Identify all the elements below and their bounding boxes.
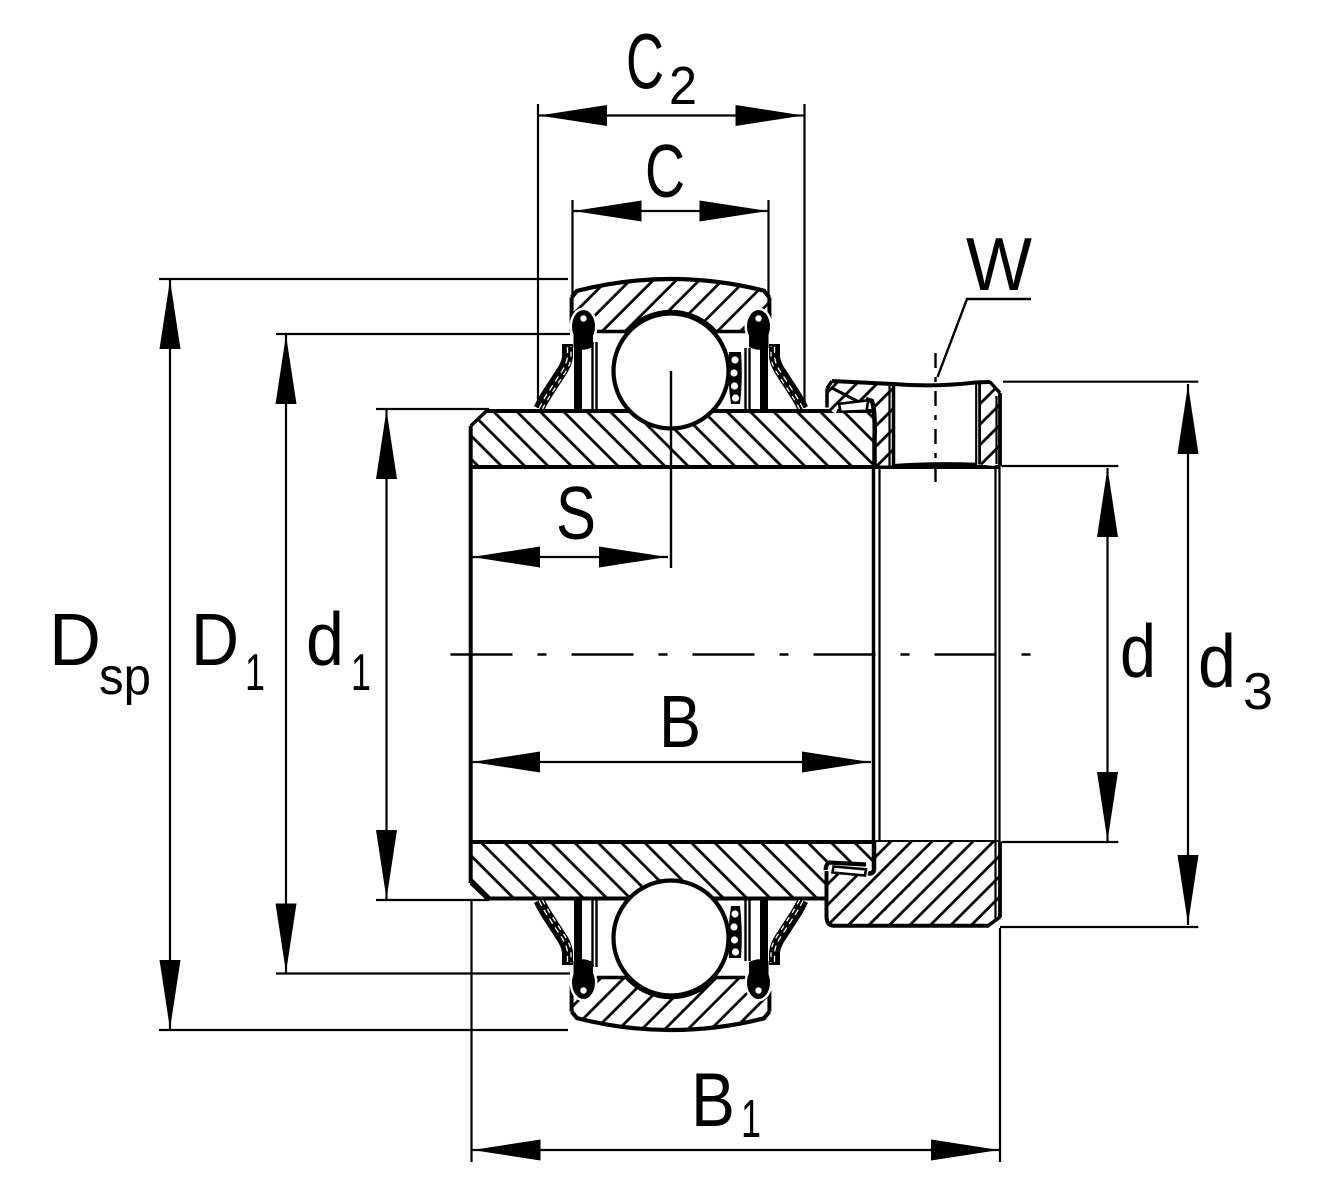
dimension d1: [306, 409, 489, 900]
dimension B1: [472, 899, 1001, 1162]
locking collar bottom section: [826, 842, 1001, 926]
raceway shoulder lines top-right: [744, 348, 746, 409]
svg-text:B: B: [659, 680, 701, 763]
svg-text:S: S: [556, 471, 596, 555]
raceway shoulder lines bottom-right: [744, 900, 746, 961]
svg-text:C: C: [626, 17, 664, 105]
inner ring left face: [469, 426, 473, 883]
svg-text:D: D: [49, 598, 101, 681]
dimension C: [573, 129, 769, 297]
outer ring top section: [572, 279, 770, 332]
dimension Dsp: [49, 279, 568, 1030]
locking collar top left section: [827, 381, 894, 466]
W centerline: [934, 353, 936, 491]
svg-text:B: B: [691, 1058, 735, 1143]
dimension D1: [191, 334, 570, 974]
seal bottom-right: [745, 900, 804, 1002]
locking collar top middle (elevation): [890, 382, 978, 465]
locking collar top right section: [976, 382, 1000, 467]
dimension d3: [1000, 382, 1273, 927]
svg-text:d: d: [1120, 609, 1156, 693]
svg-text:1: 1: [741, 1089, 761, 1149]
inner ring right face: [872, 467, 876, 842]
dimension C2: [538, 17, 805, 408]
svg-text:sp: sp: [99, 648, 151, 706]
bore line top: [471, 465, 1000, 469]
dimension d: [1002, 466, 1156, 842]
bore line bottom: [471, 840, 1000, 844]
svg-text:D: D: [191, 598, 239, 681]
W leader line: [938, 299, 1032, 377]
raceway shoulder lines top-left: [591, 342, 593, 409]
svg-text:2: 2: [669, 56, 697, 116]
cage rivet band bottom: [728, 906, 741, 958]
svg-text:d: d: [306, 597, 344, 681]
ball axis line: [670, 371, 672, 568]
svg-text:1: 1: [245, 644, 265, 702]
inner ring bottom section: [471, 842, 875, 899]
seal top-right: [745, 308, 804, 410]
raceway shoulder lines bottom-left: [591, 900, 593, 967]
svg-text:d: d: [1198, 619, 1236, 703]
ball bottom: [614, 881, 729, 996]
inner ring top section: [471, 411, 875, 468]
dimension S: [471, 471, 668, 568]
ball top: [614, 314, 729, 429]
svg-text:1: 1: [351, 644, 371, 702]
svg-text:C: C: [645, 129, 685, 213]
axis centerline: [451, 653, 1033, 656]
seal bottom-left: [539, 900, 598, 1002]
seal top-left: [539, 308, 598, 410]
svg-text:3: 3: [1243, 663, 1273, 721]
collar right face seen through bore: [994, 467, 996, 842]
outer ring bottom section: [572, 978, 770, 1031]
cage rivet band top: [728, 352, 741, 404]
svg-text:W: W: [966, 222, 1032, 306]
dimension B: [471, 680, 871, 773]
